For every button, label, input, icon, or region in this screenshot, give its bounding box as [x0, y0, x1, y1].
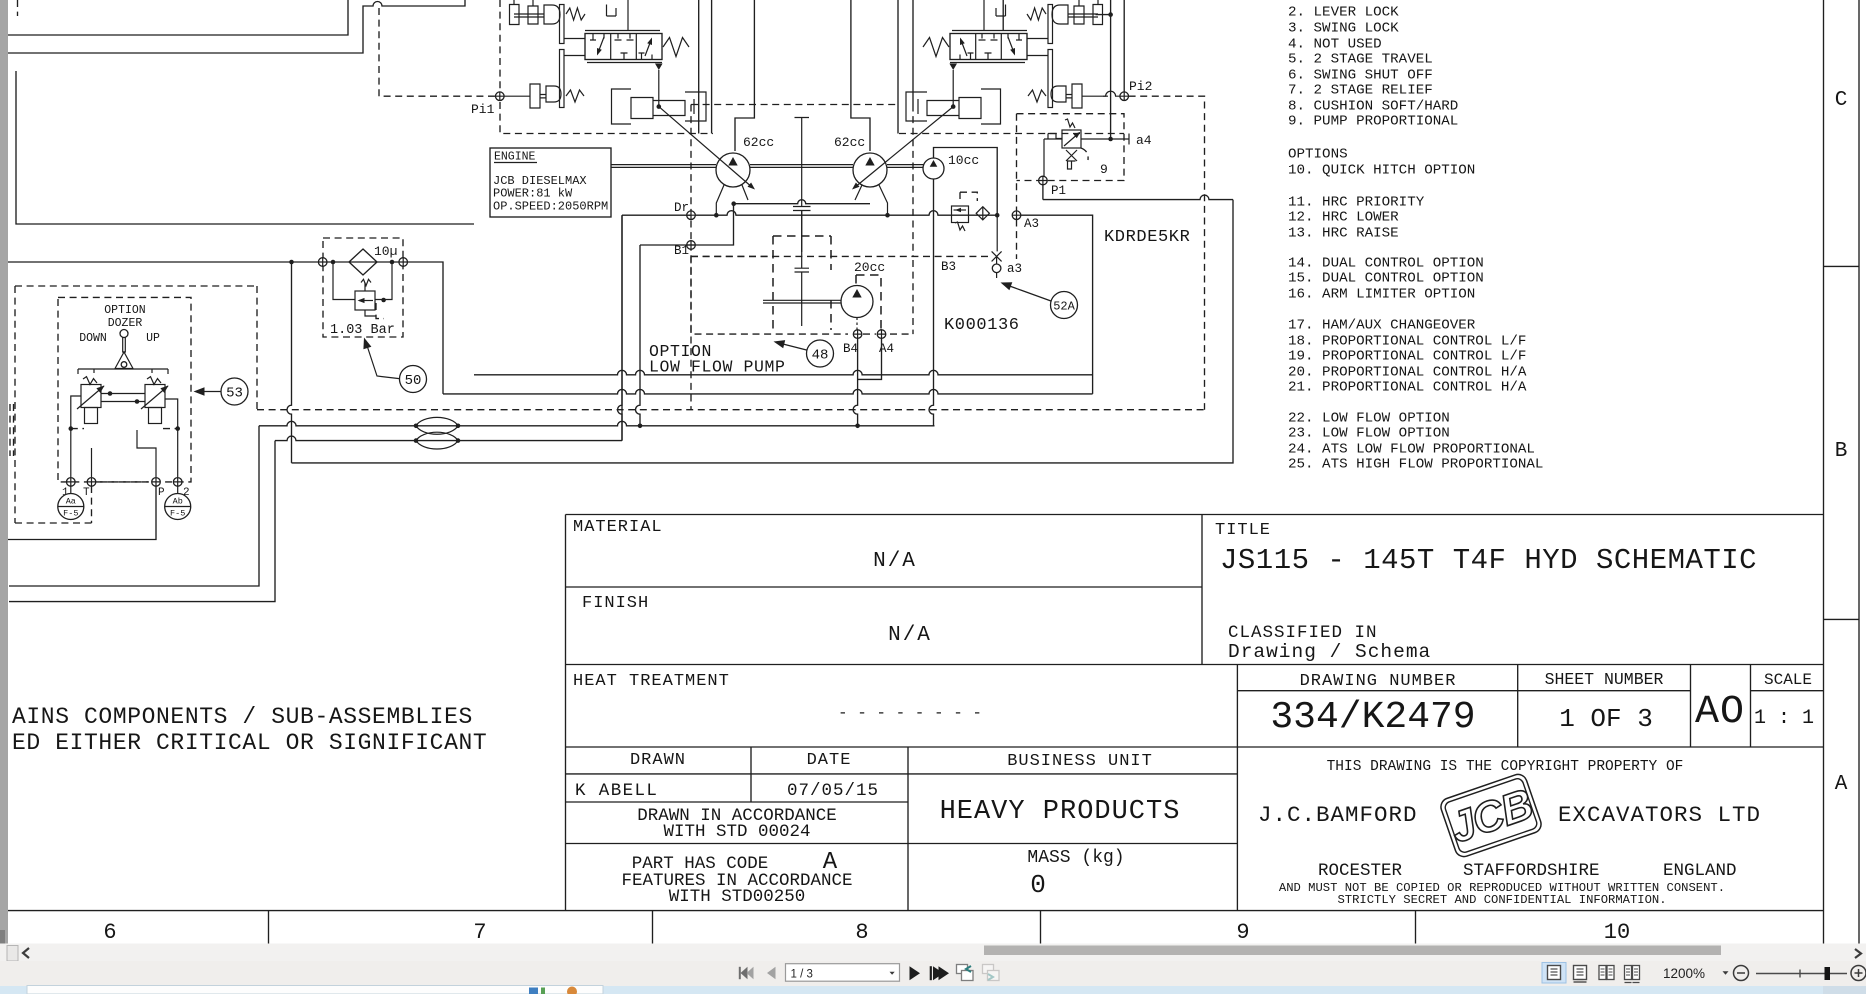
svg-text:334/K2479: 334/K2479 [1270, 696, 1475, 739]
svg-text:P: P [158, 487, 165, 499]
port A3 [1012, 211, 1021, 220]
wire: Pi2 riser [1123, 0, 1125, 92]
svg-text:DATE: DATE [807, 751, 852, 770]
wire: A4 jog [858, 339, 882, 380]
svg-text:THIS DRAWING IS THE COPYRIGHT: THIS DRAWING IS THE COPYRIGHT PROPERTY O… [1327, 759, 1684, 775]
balloon 53 [221, 378, 248, 405]
svg-text:0: 0 [1030, 870, 1046, 900]
pilot tank symbol [607, 5, 617, 17]
filter F1 10u diamond [349, 249, 377, 275]
option dozer valve dashed box [58, 297, 191, 482]
svg-text:JS115 - 145T T4F HYD SCHEMATIC: JS115 - 145T T4F HYD SCHEMATIC [1220, 544, 1757, 577]
svg-text:9: 9 [1100, 162, 1108, 177]
wire: bus y393.9 from breather [443, 389, 1093, 394]
pilot spring lower [1028, 90, 1046, 102]
pilot solenoid lower [504, 84, 561, 108]
wire: Pi2 stub with bump [1103, 91, 1120, 96]
wire: Aa/Ab stubs [71, 486, 178, 494]
wire: KDRDE5KR dashed edge [1016, 114, 1018, 259]
balloon 50 [400, 366, 427, 393]
inner coupling dash-dot box [773, 236, 831, 330]
svg-text:J.C.BAMFORD: J.C.BAMFORD [1258, 802, 1418, 828]
wire: top-left bus 2 with jump bump [8, 0, 465, 53]
svg-text:15. DUAL CONTROL OPTION: 15. DUAL CONTROL OPTION [1288, 271, 1484, 287]
wire: solid bus y462.9 [287, 262, 292, 463]
options list [1288, 5, 1543, 473]
svg-text:25. ATS HIGH FLOW PROPORTIONAL: 25. ATS HIGH FLOW PROPORTIONAL [1288, 457, 1543, 473]
toolbar: zoom out [1734, 966, 1749, 981]
svg-text:2. LEVER LOCK: 2. LEVER LOCK [1288, 5, 1399, 21]
toolbar background [0, 961, 1866, 986]
svg-text:ED EITHER CRITICAL OR SIGNIFIC: ED EITHER CRITICAL OR SIGNIFICANT [12, 730, 487, 756]
svg-text:50: 50 [405, 373, 422, 389]
drive shaft double line [611, 165, 924, 168]
wire: B1 line [640, 204, 734, 245]
svg-text:HEAT TREATMENT: HEAT TREATMENT [573, 672, 730, 691]
svg-text:Pi2: Pi2 [1129, 79, 1152, 94]
svg-text:10cc: 10cc [948, 153, 979, 168]
svg-text:N/A: N/A [873, 550, 917, 573]
wire: dashed vertical from option-dozer area [256, 286, 258, 410]
svg-text:B1: B1 [674, 244, 689, 258]
valve group V2 (right, mirrored) [906, 0, 1108, 124]
dozer valve left section [81, 385, 101, 408]
svg-text:8. CUSHION SOFT/HARD: 8. CUSHION SOFT/HARD [1288, 99, 1458, 115]
port B1 [687, 241, 696, 250]
pilot solenoid lower [1051, 84, 1108, 108]
toolbar: page number box [786, 964, 900, 982]
wire: V2 risers [1002, 0, 1004, 31]
svg-text:KDRDE5KR: KDRDE5KR [1104, 228, 1190, 247]
wire: T dashed drop [91, 486, 93, 523]
relief valve 9 dashed box [1017, 114, 1125, 181]
svg-text:STRICTLY SECRET AND CONFIDENTI: STRICTLY SECRET AND CONFIDENTIAL INFORMA… [1337, 893, 1666, 907]
balloon 52A [1051, 292, 1078, 319]
wire: 10cc drain riser [933, 179, 935, 186]
port Dr [687, 211, 696, 220]
coupling capacitor bars [795, 211, 810, 327]
svg-text:10. QUICK HITCH OPTION: 10. QUICK HITCH OPTION [1288, 163, 1475, 179]
svg-text:17. HAM/AUX CHANGEOVER: 17. HAM/AUX CHANGEOVER [1288, 318, 1476, 334]
toolbar: prev page button [767, 967, 776, 979]
svg-text:DRAWN: DRAWN [630, 751, 686, 770]
toolbar: zoom in [1851, 966, 1866, 981]
svg-text:a3: a3 [1007, 262, 1022, 276]
wire: spool to servo [949, 64, 957, 71]
svg-text:FINISH: FINISH [582, 594, 649, 613]
wire: pump2 feed from valve [851, 0, 870, 151]
svg-text:a4: a4 [1136, 133, 1152, 148]
svg-text:1.03 Bar: 1.03 Bar [330, 323, 395, 338]
wire: relief 9 connections [1081, 134, 1129, 145]
svg-text:TITLE: TITLE [1215, 521, 1271, 540]
svg-text:24. ATS LOW FLOW PROPORTIONAL: 24. ATS LOW FLOW PROPORTIONAL [1288, 442, 1535, 458]
svg-text:UP: UP [146, 332, 160, 345]
svg-text:Dr: Dr [674, 201, 689, 215]
relief valve RV2 [952, 206, 969, 223]
relief valve 1.03 Bar [355, 291, 375, 310]
wire: P1 drop to right bus [1043, 195, 1233, 200]
wire: left tank return line [16, 71, 474, 224]
hose symbol lower [416, 432, 458, 449]
pilot spring upper [1027, 8, 1046, 20]
title block grid [566, 515, 1824, 911]
balloon 48 [807, 340, 834, 367]
wire: top-left bus 1 [8, 0, 348, 35]
linkage plates [1048, 5, 1053, 44]
svg-text:EXCAVATORS LTD: EXCAVATORS LTD [1558, 802, 1761, 828]
port B4 [853, 330, 862, 339]
svg-text:Drawing / Schema: Drawing / Schema [1228, 641, 1431, 663]
wire: valve A/B lines left [699, 0, 712, 134]
svg-text:62cc: 62cc [743, 135, 774, 150]
valve V2 dashed enclosure [899, 133, 1124, 135]
pump P4 dash-dot outline [856, 275, 881, 329]
svg-text:07/05/15: 07/05/15 [787, 781, 879, 801]
svg-text:ENGINE: ENGINE [494, 151, 536, 164]
relief valve RV9 [1062, 130, 1081, 148]
pump P2 62cc variable swash link [854, 107, 953, 188]
svg-text:4. NOT USED: 4. NOT USED [1288, 37, 1382, 53]
svg-text:1 : 1: 1 : 1 [1754, 707, 1814, 730]
dozer pilot pistons [85, 408, 98, 424]
svg-text:C: C [1835, 89, 1848, 112]
wire: B4-A4 dashed link [863, 333, 876, 335]
connector Aa [58, 494, 84, 520]
filter F2 [976, 207, 989, 220]
svg-text:10: 10 [1604, 920, 1630, 945]
svg-text:DRAWING NUMBER: DRAWING NUMBER [1300, 672, 1457, 691]
svg-text:Pi1: Pi1 [471, 102, 495, 117]
wire: Dr drop [622, 215, 691, 440]
svg-text:14. DUAL CONTROL OPTION: 14. DUAL CONTROL OPTION [1288, 256, 1484, 272]
drawing border right [1824, 0, 1860, 944]
hscrollbar thumb [984, 946, 1721, 956]
wire: pump inter-case line [734, 200, 870, 204]
svg-text:MASS (kg): MASS (kg) [1027, 848, 1124, 868]
svg-text:HEAVY PRODUCTS: HEAVY PRODUCTS [940, 797, 1181, 827]
svg-text:23. LOW FLOW OPTION: 23. LOW FLOW OPTION [1288, 426, 1450, 442]
balloon 48 leader [777, 343, 807, 351]
wire: top port [627, 0, 629, 31]
svg-text:6. SWING SHUT OFF: 6. SWING SHUT OFF [1288, 68, 1433, 84]
toolbar: first page button [741, 967, 748, 979]
engine box [490, 148, 611, 217]
zone divider B/A [1824, 618, 1860, 620]
main valve body [585, 34, 662, 60]
svg-text:AO: AO [1695, 690, 1745, 735]
svg-text:- - - - - - - -: - - - - - - - - [838, 704, 982, 722]
svg-text:ROCESTER: ROCESTER [1318, 861, 1403, 881]
svg-text:STAFFORDSHIRE: STAFFORDSHIRE [1463, 861, 1600, 881]
svg-text:11. HRC PRIORITY: 11. HRC PRIORITY [1288, 195, 1425, 211]
svg-text:P1: P1 [1051, 184, 1066, 198]
svg-text:OP.SPEED:2050RPM: OP.SPEED:2050RPM [493, 200, 608, 214]
svg-text:13. HRC RAISE: 13. HRC RAISE [1288, 226, 1399, 242]
wire: solid bus y440.6 with hose symbol [275, 436, 622, 441]
wire: relief bypass branch [333, 262, 392, 300]
svg-text:POWER:81 kW: POWER:81 kW [493, 187, 573, 201]
svg-text:DOWN: DOWN [79, 332, 107, 345]
svg-text:B3: B3 [941, 260, 956, 274]
svg-text:OPTION: OPTION [104, 304, 145, 317]
servo cylinder [612, 89, 707, 124]
svg-text:F-5: F-5 [170, 509, 185, 519]
svg-text:CLASSIFIED IN: CLASSIFIED IN [1228, 623, 1378, 643]
pump dashed enclosure [691, 105, 913, 410]
svg-text:7: 7 [473, 920, 486, 945]
svg-text:62cc: 62cc [834, 135, 865, 150]
svg-text:21. PROPORTIONAL CONTROL H/A: 21. PROPORTIONAL CONTROL H/A [1288, 380, 1527, 396]
servo cylinder [906, 89, 1001, 124]
svg-text:BUSINESS UNIT: BUSINESS UNIT [1007, 752, 1153, 771]
svg-text:DOZER: DOZER [108, 317, 143, 330]
svg-text:18. PROPORTIONAL CONTROL L/F: 18. PROPORTIONAL CONTROL L/F [1288, 334, 1526, 350]
toolbar: two-page continuous view [1625, 966, 1640, 983]
wire: solid bus y425.8 with hose symbol [259, 421, 935, 426]
svg-text:6: 6 [103, 920, 116, 945]
port P1 [1039, 176, 1048, 185]
wire: suction line y262 [8, 262, 443, 394]
svg-text:12. HRC LOWER: 12. HRC LOWER [1288, 210, 1399, 226]
pilot solenoid upper [1052, 0, 1103, 25]
svg-text:T: T [83, 487, 90, 499]
wire: pilot dashed line to Pi1 [379, 8, 495, 96]
option dozer outer dashed box [15, 286, 257, 523]
dozer interconnect wires [101, 394, 145, 402]
valve springs [663, 38, 689, 57]
wire: P drop to page edge [8, 486, 156, 540]
dashed T-P link [100, 481, 148, 483]
port A4 [877, 330, 886, 339]
svg-text:53: 53 [226, 386, 243, 402]
bottom taskbar strip [0, 986, 1866, 994]
zone ticks bottom [269, 911, 1416, 944]
svg-text:1 / 3: 1 / 3 [791, 969, 813, 981]
svg-text:N/A: N/A [888, 624, 932, 647]
svg-text:20cc: 20cc [854, 260, 885, 275]
toolbar: previous view icon [957, 965, 974, 981]
wire: A3 junction down to check [996, 215, 998, 251]
wire: bus left drops to page edge [9, 426, 259, 586]
svg-text:SCALE: SCALE [1764, 671, 1812, 689]
pump P2 62cc [853, 153, 887, 187]
wire: Dr to A3 manifold line [691, 211, 997, 215]
dozer valve right section [145, 385, 165, 408]
svg-text:1200%: 1200% [1663, 966, 1705, 981]
valve group V1 (left) [504, 0, 706, 124]
svg-text:22. LOW FLOW OPTION: 22. LOW FLOW OPTION [1288, 411, 1450, 427]
wire: dashed enclosure right edge to Pi2 [1129, 96, 1205, 410]
svg-text:7. 2 STAGE RELIEF: 7. 2 STAGE RELIEF [1288, 83, 1433, 99]
svg-text:3. SWING LOCK: 3. SWING LOCK [1288, 21, 1399, 37]
svg-text:B: B [1835, 440, 1848, 463]
svg-text:19. PROPORTIONAL CONTROL L/F: 19. PROPORTIONAL CONTROL L/F [1288, 349, 1526, 365]
dozer control lever [120, 330, 128, 338]
valve cell arrows [1008, 34, 1022, 55]
valve V1 dashed enclosure [500, 0, 713, 134]
wire: 10cc pressure box [934, 148, 998, 216]
port Pi1 [496, 92, 505, 101]
svg-text:9. PUMP PROPORTIONAL: 9. PUMP PROPORTIONAL [1288, 114, 1458, 130]
pump P3 10cc [923, 158, 944, 179]
svg-text:5. 2 STAGE TRAVEL: 5. 2 STAGE TRAVEL [1288, 52, 1433, 68]
pilot spring lower [566, 90, 584, 102]
option low flow pump dashed box [691, 256, 913, 334]
pilot solenoid upper [510, 0, 561, 25]
toolbar: continuous view [1574, 966, 1587, 983]
JCB logo [1439, 772, 1544, 859]
pump P4 20cc shaft [763, 300, 841, 303]
port Pi2 [1120, 92, 1129, 101]
balloon 52A leader [1004, 284, 1051, 301]
wire: riser to a4 [1096, 0, 1111, 139]
svg-text:A3: A3 [1024, 217, 1039, 231]
svg-text:16. ARM LIMITER OPTION: 16. ARM LIMITER OPTION [1288, 287, 1475, 303]
balloon 53 leader [198, 391, 221, 393]
wire: main dashed pilot bus y409 [257, 409, 1205, 411]
toolbar: next view icon (disabled) [983, 965, 1000, 981]
svg-text:SHEET NUMBER: SHEET NUMBER [1545, 670, 1664, 689]
wire: filter inlet/outlet [318, 258, 327, 267]
wire: top port [983, 0, 985, 31]
wire: valve A/B lines right [898, 0, 913, 134]
zone divider C/B [1824, 265, 1860, 267]
svg-text:9: 9 [1236, 920, 1249, 945]
clipped dashed box at page edge [10, 404, 14, 456]
toolbar: next page button [910, 966, 921, 980]
svg-text:Aa: Aa [66, 497, 76, 507]
svg-text:ENGLAND: ENGLAND [1663, 861, 1737, 881]
svg-text:AINS COMPONENTS / SUB-ASSEMBLI: AINS COMPONENTS / SUB-ASSEMBLIES [12, 704, 473, 730]
wire: pump1 feed from valve [735, 0, 754, 151]
hscrollbar row [0, 944, 1866, 962]
svg-text:48: 48 [812, 348, 829, 364]
svg-text:A: A [1835, 773, 1848, 796]
filter F1 dashed box [323, 238, 403, 337]
svg-text:8: 8 [855, 920, 868, 945]
check X a3 [992, 251, 1002, 264]
mech coupling centre line [793, 118, 811, 253]
svg-text:52A: 52A [1053, 299, 1075, 313]
svg-text:1 OF 3: 1 OF 3 [1559, 704, 1653, 734]
toolbar: zoom slider [1756, 973, 1847, 975]
linkage plates [560, 5, 565, 44]
left scrollbar strip [0, 0, 8, 945]
svg-text:WITH STD 00024: WITH STD 00024 [663, 822, 810, 842]
svg-text:F-5: F-5 [63, 509, 78, 519]
ports 1 T P 2 [67, 478, 76, 487]
svg-text:Ab: Ab [173, 497, 183, 507]
svg-text:10µ: 10µ [374, 244, 397, 259]
svg-text:K000136: K000136 [944, 316, 1020, 335]
svg-text:WITH STD00250: WITH STD00250 [669, 887, 806, 907]
main valve body [950, 34, 1027, 60]
valve springs [923, 38, 949, 57]
svg-text:MATERIAL: MATERIAL [573, 518, 663, 537]
pump case drain legs [716, 185, 887, 215]
wire: 20cc drops to B4/A4 [857, 318, 881, 330]
wire: spool to servo [655, 64, 663, 71]
hose symbol upper [416, 417, 458, 434]
drawing border bottom [0, 910, 1824, 912]
toolbar: last page button [933, 966, 949, 980]
dozer port risers [71, 396, 178, 477]
toolbar: single page view (active) [1542, 963, 1566, 984]
wire: small dashed stub top-left [17, 0, 19, 16]
svg-text:LOW FLOW PUMP: LOW FLOW PUMP [649, 358, 786, 377]
wire: line y374.8 from tank return [474, 370, 1093, 375]
svg-text:OPTIONS: OPTIONS [1288, 147, 1348, 163]
pilot tank symbol [996, 5, 1006, 17]
valve cell arrows [590, 34, 604, 55]
wire: B3 dashed [691, 255, 991, 257]
connector Ab [165, 494, 191, 520]
pump P4 20cc [841, 286, 873, 318]
svg-text:K ABELL: K ABELL [575, 781, 658, 801]
svg-text:20. PROPORTIONAL CONTROL H/A: 20. PROPORTIONAL CONTROL H/A [1288, 365, 1527, 381]
svg-text:B4: B4 [843, 342, 858, 356]
toolbar: two-page view [1599, 966, 1614, 980]
pump P1 62cc variable swash link [659, 107, 753, 188]
wire: A3 box to bus [1021, 215, 1093, 394]
pilot spring upper [566, 8, 585, 20]
pump P1 62cc [716, 153, 750, 187]
balloon 50 leader [366, 341, 403, 379]
wire: B4 riser to bus [853, 339, 858, 426]
